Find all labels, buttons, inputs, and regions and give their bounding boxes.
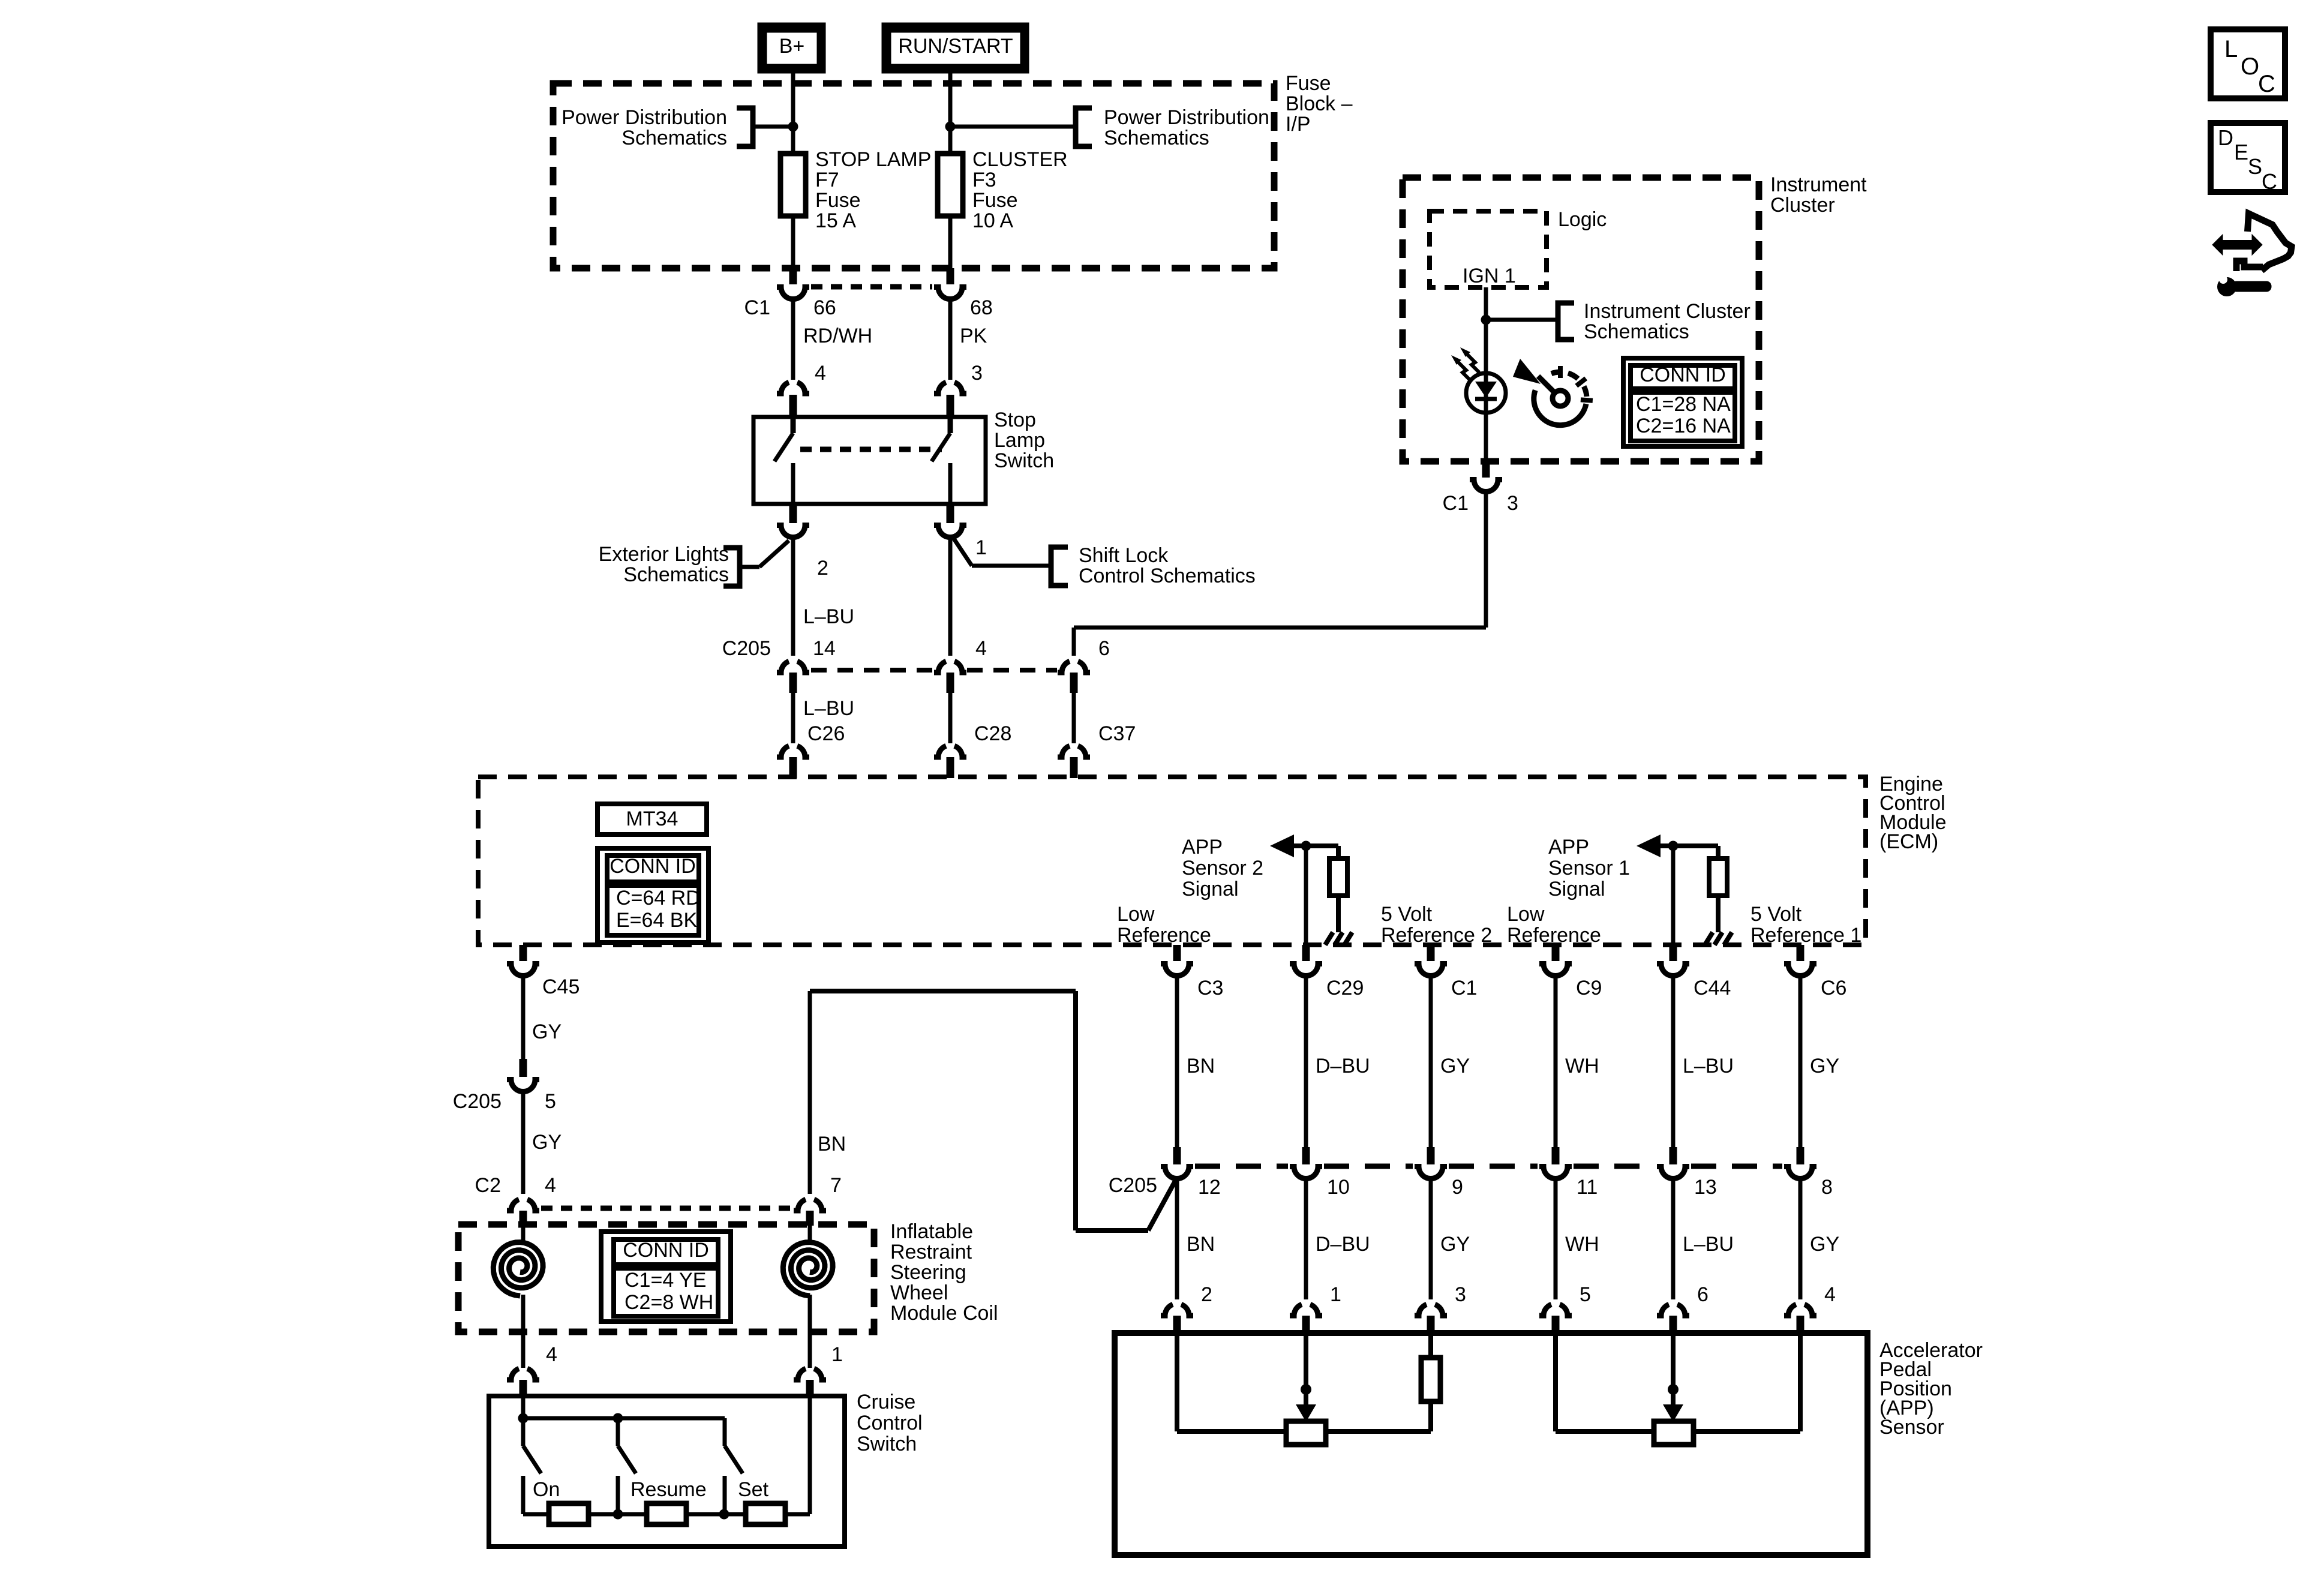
svg-text:11: 11 (1577, 1176, 1598, 1199)
svg-text:3: 3 (971, 362, 983, 385)
svg-text:Schematics: Schematics (623, 563, 729, 586)
ECM exit connector C45 (507, 945, 539, 976)
APP Sensor 1 Signal arrow (1637, 834, 1718, 857)
APP pot 2 (left) (1177, 1333, 1440, 1445)
wire RUN/START to fuse F3 (948, 73, 953, 154)
svg-text:Instrument Cluster: Instrument Cluster (1584, 300, 1750, 323)
svg-text:Low: Low (1507, 903, 1545, 926)
splice stub C205-5 (520, 1059, 527, 1077)
C205 bus2 dashed line (1195, 1164, 1782, 1169)
svg-text:C3: C3 (1197, 977, 1223, 999)
svg-text:Exterior Lights: Exterior Lights (599, 543, 729, 566)
wire BN to C205 pin 12 (1175, 977, 1179, 1164)
wire pin4 to bus (521, 1396, 526, 1418)
svg-text:BN: BN (1187, 1233, 1215, 1256)
connector C37 into ECM (1058, 746, 1090, 778)
svg-text:4: 4 (975, 637, 987, 660)
wire IGN1 down (1484, 287, 1488, 461)
connector C1 in-line dash link (811, 284, 932, 290)
in-line connector C205 pin 13 (1657, 1167, 1689, 1179)
svg-text:C1: C1 (1451, 977, 1477, 999)
svg-text:C6: C6 (1821, 977, 1846, 999)
svg-text:5 Volt: 5 Volt (1381, 903, 1433, 926)
On switch (523, 1418, 541, 1514)
svg-text:L: L (2224, 36, 2238, 62)
label Instrument Cluster (1770, 173, 1867, 217)
cruise control switch box (489, 1396, 845, 1547)
svg-text:7: 7 (830, 1174, 842, 1197)
svg-text:GY: GY (1440, 1233, 1470, 1256)
svg-text:10 A: 10 A (972, 209, 1013, 232)
LED indicator (1466, 373, 1506, 413)
svg-text:C2=16 NA: C2=16 NA (1636, 415, 1731, 437)
svg-text:Fuse: Fuse (972, 189, 1018, 212)
inflatable restraint coil dashed box (458, 1224, 874, 1332)
wire signal 2 to C29 (1304, 846, 1308, 946)
svg-text:Cluster: Cluster (1770, 194, 1835, 217)
wire to Power Distribution (right) (950, 125, 1074, 129)
wire pin2 L-BU down to C205 (791, 539, 795, 656)
reference bracket Shift Lock Control Schematics (1051, 544, 1256, 587)
resistor R-On (523, 1503, 588, 1524)
wire to Shift Lock Control (954, 539, 1049, 566)
svg-text:S: S (2248, 154, 2262, 179)
label Engine Control Module (ECM) (1879, 773, 1947, 853)
node: RUN/START feed junction (945, 122, 956, 132)
switch bus (523, 1416, 725, 1421)
connector APP pin 3 (1415, 1304, 1447, 1334)
wire C45 GY (521, 977, 526, 1059)
svg-text:F7: F7 (815, 169, 839, 191)
svg-text:C: C (2258, 71, 2275, 97)
node Resume (613, 1413, 623, 1424)
svg-text:D–BU: D–BU (1316, 1055, 1370, 1077)
Set switch (725, 1418, 743, 1514)
svg-text:CONN ID: CONN ID (1640, 364, 1726, 386)
reference bracket Exterior Lights Schematics (599, 543, 740, 586)
label APP Sensor 2 Signal (1182, 836, 1263, 900)
svg-text:Control: Control (857, 1412, 923, 1434)
C205 bus dashed line (811, 668, 1057, 673)
wire to ECM C28 (948, 693, 953, 743)
connector pin 4 into cruise switch (507, 1332, 539, 1397)
svg-text:Resume: Resume (630, 1478, 707, 1501)
svg-text:Reference: Reference (1507, 924, 1601, 947)
svg-text:L–BU: L–BU (1683, 1233, 1734, 1256)
wire GY to coil C2-4 (521, 1092, 526, 1194)
connector APP pin 5 (1539, 1304, 1572, 1334)
in-line connector C205 pin 4 (934, 661, 966, 693)
svg-text:CONN ID: CONN ID (623, 1239, 709, 1262)
svg-text:D: D (2218, 125, 2233, 150)
svg-text:C37: C37 (1098, 722, 1136, 745)
svg-text:PK: PK (960, 325, 987, 347)
svg-text:Shift Lock: Shift Lock (1079, 544, 1169, 567)
svg-text:GY: GY (1810, 1055, 1839, 1077)
wire L-BU to C205 pin 13 (1671, 977, 1676, 1164)
connector pin 2 (switch out) (777, 504, 809, 538)
stop lamp switch box (753, 417, 986, 504)
svg-text:2: 2 (817, 557, 828, 580)
svg-text:5: 5 (545, 1090, 556, 1113)
node On (518, 1413, 529, 1424)
wire F3 to fuse block edge (948, 216, 953, 268)
reference bracket Instrument Cluster Schematics (1558, 300, 1750, 343)
coil CONN ID table (601, 1232, 731, 1322)
svg-text:1: 1 (831, 1343, 843, 1366)
svg-text:C26: C26 (807, 722, 845, 745)
connector C1 pin 66 (fuse block out) (777, 268, 809, 299)
pull resistor (sensor 2) (1329, 846, 1347, 932)
svg-text:BN: BN (1187, 1055, 1215, 1077)
in-line connector C205 pin 12 (1161, 1167, 1193, 1179)
label 5 Volt Reference 1 (1750, 903, 1861, 947)
svg-text:Sensor: Sensor (1879, 1416, 1944, 1439)
svg-text:On: On (533, 1478, 560, 1501)
ECM exit connector C44 (1657, 945, 1689, 976)
label APP Sensor 1 Signal (1548, 836, 1630, 900)
svg-text:(ECM): (ECM) (1879, 830, 1938, 853)
in-line connector C205 pin 6 (1058, 661, 1090, 693)
reference bracket Power Distribution Schematics (right) (1076, 106, 1269, 149)
svg-text:5 Volt: 5 Volt (1750, 903, 1802, 926)
svg-text:5: 5 (1580, 1283, 1591, 1306)
svg-text:Inflatable: Inflatable (890, 1220, 973, 1243)
in-line connector C205 pin 9 (1415, 1167, 1447, 1179)
svg-text:Schematics: Schematics (1104, 127, 1209, 149)
cluster CONN ID table (1623, 358, 1742, 446)
svg-text:Fuse: Fuse (815, 189, 861, 212)
DESC icon box (2211, 123, 2285, 194)
svg-text:MT34: MT34 (626, 807, 678, 830)
node resume bottom (613, 1509, 623, 1520)
APP Sensor 2 Signal arrow (1270, 834, 1338, 857)
svg-text:Signal: Signal (1182, 878, 1239, 900)
svg-text:1: 1 (1330, 1283, 1341, 1306)
svg-text:STOP LAMP: STOP LAMP (815, 148, 931, 171)
svg-text:1: 1 (975, 536, 987, 559)
stop lamp switch label (994, 409, 1054, 472)
wire signal 1 to C44 (1671, 846, 1676, 946)
wire cluster to C205 pin 6: down, left, down (1074, 492, 1486, 656)
svg-text:Signal: Signal (1548, 878, 1605, 900)
switch mechanical link (dashed) (800, 447, 942, 452)
connector APP pin 2 (1161, 1304, 1193, 1334)
svg-text:Reference 1: Reference 1 (1750, 924, 1861, 947)
svg-text:L–BU: L–BU (803, 605, 854, 628)
svg-text:APP: APP (1548, 836, 1589, 858)
wire C205 to APP pin 1 (1304, 1179, 1308, 1299)
svg-text:E=64 BK: E=64 BK (616, 909, 697, 932)
connector C1 pin 3 (cluster out) (1470, 461, 1502, 492)
svg-text:Module Coil: Module Coil (890, 1302, 998, 1325)
switch contact right (932, 417, 950, 504)
C2 connector dash link (541, 1206, 791, 1211)
svg-text:I/P: I/P (1286, 113, 1311, 136)
svg-text:4: 4 (546, 1343, 557, 1366)
svg-text:Lamp: Lamp (994, 429, 1045, 452)
svg-text:C1=4 YE: C1=4 YE (624, 1269, 706, 1292)
label 5 Volt Reference 2 (1381, 903, 1492, 947)
svg-text:WH: WH (1565, 1055, 1599, 1077)
svg-text:CONN ID: CONN ID (609, 855, 696, 878)
svg-text:RUN/START: RUN/START (898, 35, 1013, 58)
svg-text:C205: C205 (453, 1090, 502, 1113)
svg-text:Control Schematics: Control Schematics (1079, 565, 1256, 587)
ECM exit connector C3 (1161, 945, 1193, 976)
svg-text:GY: GY (1810, 1233, 1839, 1256)
ground (sensor 2 pull) (1325, 932, 1333, 945)
svg-text:Schematics: Schematics (1584, 320, 1689, 343)
wire BN: cruise/coil to C205-12: up, right, down, right, diagonal (810, 991, 1177, 1230)
coil spiral left (493, 1224, 543, 1332)
power feed RUN/START box (882, 23, 1029, 73)
svg-text:Steering: Steering (890, 1261, 966, 1284)
label Low Reference (C9) (1507, 903, 1601, 947)
svg-text:IGN 1: IGN 1 (1463, 265, 1516, 287)
instrument cluster dashed box (1403, 178, 1759, 461)
in-line connector C205 pin 11 (1539, 1167, 1572, 1179)
node set bottom (719, 1509, 729, 1520)
connector C1 pin 68 (fuse block out) (934, 268, 966, 299)
label Fuse Block - I/P (1286, 72, 1353, 136)
svg-text:4: 4 (545, 1174, 556, 1197)
wire C205 to APP pin 4 (1798, 1179, 1803, 1299)
wire 68 PK (948, 299, 953, 380)
svg-text:68: 68 (970, 296, 993, 319)
wire C205 to APP pin 5 (1554, 1179, 1558, 1299)
node APP sensor 2 signal (1301, 841, 1311, 851)
svg-text:Restraint: Restraint (890, 1241, 972, 1263)
connector pin 1 (switch out) (934, 504, 966, 538)
svg-text:9: 9 (1452, 1176, 1463, 1199)
ECM CONN ID table (597, 848, 708, 942)
wire C205 to APP pin 3 (1429, 1179, 1433, 1299)
resistor R-Set (686, 1503, 785, 1524)
svg-text:3: 3 (1507, 492, 1518, 515)
connector APP pin 4 (1784, 1304, 1816, 1334)
svg-text:13: 13 (1694, 1176, 1717, 1199)
wire B+ to fuse F7 (791, 73, 795, 154)
svg-text:Fuse: Fuse (1286, 72, 1331, 95)
APP pot 1 wiper (1663, 1333, 1683, 1422)
node: B+ feed junction (788, 122, 798, 132)
svg-text:RD/WH: RD/WH (803, 325, 872, 347)
vehicle diagnostic icon (2212, 214, 2292, 296)
svg-text:C: C (2262, 169, 2277, 194)
svg-text:Cruise: Cruise (857, 1391, 915, 1413)
svg-text:O: O (2241, 53, 2259, 80)
svg-text:Stop: Stop (994, 409, 1036, 431)
wire 66 RD/WH (791, 299, 795, 380)
ECM exit connector C6 (1784, 945, 1816, 976)
wire to Power Distribution (left) (755, 125, 793, 129)
reference bracket Power Distribution Schematics (left) (562, 106, 753, 149)
svg-text:8: 8 (1821, 1176, 1833, 1199)
svg-text:Sensor 1: Sensor 1 (1548, 857, 1630, 879)
svg-text:Wheel: Wheel (890, 1281, 948, 1304)
svg-text:E: E (2234, 140, 2248, 164)
svg-text:Power Distribution: Power Distribution (1104, 106, 1269, 129)
LOC icon box (2211, 29, 2285, 98)
svg-text:C2=8 WH: C2=8 WH (624, 1291, 713, 1314)
wire pin1 down to C205 pin 4 (948, 538, 953, 656)
svg-text:GY: GY (532, 1131, 562, 1154)
svg-text:C1=28 NA: C1=28 NA (1636, 393, 1731, 416)
svg-text:Instrument: Instrument (1770, 173, 1867, 196)
fuse F7 STOP LAMP 15A (780, 148, 931, 232)
svg-text:C1: C1 (744, 296, 770, 319)
wire GY to C205 pin 9 (1429, 977, 1433, 1164)
svg-text:Low: Low (1117, 903, 1155, 926)
ECM exit connector C9 (1539, 945, 1572, 976)
in-line connector C205 pin 8 (1784, 1167, 1816, 1179)
APP pot 2 wiper (1296, 1333, 1316, 1422)
connector C2 pin 4 into coil (507, 1199, 539, 1226)
svg-text:Reference: Reference (1117, 924, 1211, 947)
svg-text:Set: Set (738, 1478, 769, 1501)
svg-text:C9: C9 (1576, 977, 1602, 999)
MT34 box (597, 804, 707, 834)
svg-text:C205: C205 (722, 637, 771, 660)
wire F7 to fuse block edge (791, 216, 795, 268)
LED arrows (1451, 347, 1479, 380)
wire to Instrument Cluster Schematics (1486, 318, 1556, 322)
svg-text:B+: B+ (779, 35, 805, 58)
svg-text:C2: C2 (475, 1174, 501, 1197)
svg-text:C45: C45 (542, 975, 580, 998)
svg-text:Schematics: Schematics (621, 127, 727, 149)
svg-text:GY: GY (532, 1020, 562, 1043)
svg-text:6: 6 (1098, 637, 1110, 660)
svg-text:12: 12 (1198, 1176, 1221, 1199)
connector pin 3 into stop lamp switch (934, 382, 966, 418)
connector pin 7 into coil (794, 1199, 826, 1226)
svg-text:Switch: Switch (994, 449, 1054, 472)
svg-text:10: 10 (1327, 1176, 1350, 1199)
svg-text:4: 4 (1824, 1283, 1836, 1306)
svg-text:C28: C28 (974, 722, 1011, 745)
svg-text:4: 4 (815, 362, 826, 385)
ground (sensor 1 pull) (1705, 932, 1713, 945)
svg-text:66: 66 (813, 296, 836, 319)
wire C205 to APP pin 6 (1671, 1179, 1676, 1299)
in-line connector C205 pin 10 (1290, 1167, 1322, 1179)
svg-text:C205: C205 (1109, 1174, 1157, 1197)
connector C28 into ECM (934, 746, 966, 778)
switch contact left (774, 417, 793, 504)
wire to ECM C37 (1072, 693, 1076, 743)
svg-text:BN: BN (818, 1133, 846, 1155)
wire D-BU to C205 pin 10 (1304, 977, 1308, 1164)
connector APP pin 6 (1657, 1304, 1689, 1334)
svg-text:Switch: Switch (857, 1433, 917, 1455)
label Inflatable Restraint Steering Wheel Module Coil (890, 1220, 998, 1325)
svg-text:C=64 RD: C=64 RD (616, 887, 701, 909)
svg-text:GY: GY (1440, 1055, 1470, 1077)
wire GY to C205 pin 8 (1798, 977, 1803, 1164)
svg-text:F3: F3 (972, 169, 996, 191)
connector C26 into ECM (777, 746, 809, 778)
fuse block I/P dashed box (553, 83, 1274, 268)
logic dashed box (1430, 211, 1547, 287)
svg-text:3: 3 (1455, 1283, 1466, 1306)
gauge icon (1513, 359, 1593, 425)
APP pot 1 (right) (1556, 1333, 1800, 1445)
svg-text:Block –: Block – (1286, 92, 1353, 115)
svg-text:2: 2 (1201, 1283, 1212, 1306)
connector APP pin 1 (1290, 1304, 1322, 1334)
svg-text:Power Distribution: Power Distribution (562, 106, 727, 129)
connector pin 4 into stop lamp switch (777, 382, 809, 418)
svg-text:6: 6 (1697, 1283, 1709, 1306)
svg-text:15 A: 15 A (815, 209, 856, 232)
svg-text:Sensor 2: Sensor 2 (1182, 857, 1263, 879)
resistor R-Resume (588, 1503, 686, 1524)
Resume switch (618, 1418, 636, 1514)
in-line connector C205 pin 5 (507, 1080, 539, 1092)
accelerator pedal position sensor box (1115, 1333, 1867, 1555)
node APP sensor 1 signal (1668, 841, 1679, 851)
node on IGN1 wire (1481, 315, 1491, 325)
ECM exit connector C29 (1290, 945, 1322, 976)
wire WH to C205 pin 11 (1554, 977, 1558, 1164)
wire C205 to APP pin 2 (1175, 1179, 1179, 1299)
wire L-BU to ECM C26 (791, 693, 795, 743)
label Cruise Control Switch (857, 1391, 923, 1455)
wire to Exterior Lights (742, 541, 789, 567)
label Low Reference (C3) (1117, 903, 1211, 947)
svg-text:WH: WH (1565, 1233, 1599, 1256)
power feed B+ box (758, 23, 825, 73)
svg-text:14: 14 (813, 637, 836, 660)
svg-text:C44: C44 (1694, 977, 1731, 999)
engine control module dashed box (478, 777, 1866, 945)
svg-text:APP: APP (1182, 836, 1223, 858)
ECM exit connector C1 (1415, 945, 1447, 976)
svg-text:L–BU: L–BU (803, 697, 854, 720)
wire to pin 1 (785, 1396, 810, 1514)
connector pin 1 into cruise switch (794, 1332, 826, 1397)
svg-text:C29: C29 (1326, 977, 1364, 999)
in-line connector C205 pin 14 (777, 661, 809, 693)
svg-text:C1: C1 (1443, 492, 1469, 515)
svg-text:D–BU: D–BU (1316, 1233, 1370, 1256)
svg-text:L–BU: L–BU (1683, 1055, 1734, 1077)
svg-text:CLUSTER: CLUSTER (972, 148, 1068, 171)
pull resistor (sensor 1) (1709, 846, 1727, 932)
svg-text:Logic: Logic (1558, 208, 1607, 231)
label Accelerator Pedal Position (APP) Sensor (1879, 1339, 1983, 1439)
fuse F3 CLUSTER 10A (938, 148, 1068, 232)
svg-text:Reference 2: Reference 2 (1381, 924, 1492, 947)
coil spiral right (783, 1224, 833, 1332)
